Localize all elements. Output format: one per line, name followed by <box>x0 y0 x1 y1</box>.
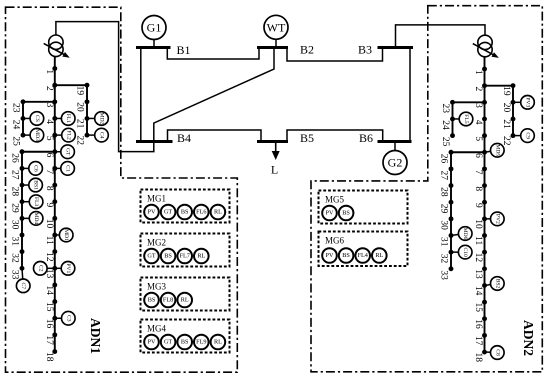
svg-text:29: 29 <box>439 204 449 214</box>
svg-text:8: 8 <box>473 186 483 191</box>
svg-text:MG6: MG6 <box>325 236 345 246</box>
svg-text:2: 2 <box>44 86 54 91</box>
unit GT at ADN1 node 6 <box>61 145 75 159</box>
svg-text:11: 11 <box>44 236 54 245</box>
svg-text:RL: RL <box>375 252 383 259</box>
svg-text:C2: C2 <box>37 265 43 272</box>
line B3-B6 <box>409 48 411 142</box>
ADN1 node 22 <box>85 133 90 138</box>
svg-text:B2: B2 <box>300 43 314 57</box>
ADN1 node 26 <box>20 149 25 154</box>
ADN2 node 8 <box>482 183 487 188</box>
unit PV3 at ADN2 node 20 <box>521 96 535 110</box>
OLTC transformer T1 (ADN1) <box>44 35 70 58</box>
ADN2 main feeder wire 1-18 <box>484 57 486 352</box>
svg-text:33: 33 <box>10 270 20 280</box>
svg-text:18: 18 <box>44 352 54 362</box>
unit PV1 at ADN1 node 13 <box>61 262 75 276</box>
svg-text:18: 18 <box>473 353 483 363</box>
ADN1 node 3 <box>52 99 57 104</box>
unit C3 at ADN1 node 16 <box>62 311 76 325</box>
unit PV in MG6 <box>322 248 337 263</box>
ADN1 node 13 <box>52 266 57 271</box>
svg-text:FL5: FL5 <box>463 114 469 124</box>
svg-text:B1: B1 <box>176 43 190 57</box>
ADN2 node 26 <box>449 150 454 155</box>
unit BS1 at ADN1 node 28 <box>29 178 43 192</box>
svg-text:B4: B4 <box>177 131 191 145</box>
svg-text:30: 30 <box>439 220 449 230</box>
svg-text:FL4: FL4 <box>358 252 368 259</box>
ADN2 branch wire 2-19-22 <box>485 86 514 136</box>
svg-text:4: 4 <box>473 120 483 125</box>
svg-text:20: 20 <box>74 102 84 112</box>
svg-text:5: 5 <box>473 136 483 141</box>
svg-text:FL9: FL9 <box>196 339 206 346</box>
wind turbine WT <box>264 15 288 39</box>
svg-text:27: 27 <box>439 170 449 180</box>
svg-text:16: 16 <box>473 319 483 329</box>
ADN1 node 33 <box>20 266 25 271</box>
svg-text:FL1: FL1 <box>65 114 71 124</box>
ADN1 node 17 <box>52 332 57 337</box>
ADN1 node 28 <box>20 183 25 188</box>
bus bar B6 <box>378 140 412 143</box>
ADN2 node 33 <box>449 266 454 271</box>
unit FL1 at ADN1 node 4 <box>61 112 75 126</box>
ADN2 node 29 <box>449 200 454 205</box>
unit C9 at ADN2 node 22 <box>521 129 535 143</box>
ADN2 node 2 <box>482 83 487 88</box>
svg-text:CS: CS <box>34 115 40 122</box>
svg-text:7: 7 <box>473 170 483 175</box>
unit GT in MG4 <box>161 335 176 350</box>
svg-text:WT: WT <box>267 20 286 34</box>
svg-text:ADN1: ADN1 <box>88 318 103 354</box>
svg-text:ADN2: ADN2 <box>521 320 536 356</box>
svg-text:RL: RL <box>197 253 205 260</box>
unit C4 at ADN1 node 22 <box>95 128 109 142</box>
unit FL2 at ADN1 node 5 <box>62 128 76 142</box>
svg-text:MD3: MD3 <box>34 129 40 141</box>
svg-text:PV: PV <box>326 210 334 217</box>
svg-text:15: 15 <box>473 303 483 313</box>
svg-text:GT: GT <box>164 339 172 346</box>
ADN2 node 19 <box>511 83 516 88</box>
svg-text:B6: B6 <box>359 131 373 145</box>
unit RL in MG3 <box>177 293 192 308</box>
svg-text:C7: C7 <box>20 283 26 290</box>
svg-text:29: 29 <box>10 203 20 213</box>
unit MD2 at ADN1 node 21 <box>95 112 109 126</box>
bus bar B2 <box>257 46 288 49</box>
ADN2 node 24 <box>450 117 455 122</box>
ADN1 + MG1-MG4 L-shaped boundary (dash-dot) <box>6 7 238 372</box>
OLTC transformer T2 (ADN2) <box>473 35 499 58</box>
ADN2 branch wire 3-23-25 <box>453 102 485 135</box>
svg-text:BS1: BS1 <box>33 180 39 190</box>
svg-text:8: 8 <box>44 186 54 191</box>
ADN2 node 14 <box>482 283 487 288</box>
ADN1 node 25 <box>21 133 26 138</box>
svg-text:27: 27 <box>10 170 20 180</box>
unit C6 at ADN1 node 27 <box>29 162 43 176</box>
ADN2 node 1 <box>482 67 487 72</box>
svg-text:21: 21 <box>501 119 511 129</box>
ADN1 node 8 <box>52 183 57 188</box>
unit FL3 at ADN1 node 29 <box>29 195 43 209</box>
svg-text:MG3: MG3 <box>147 282 167 292</box>
line B1-B4 <box>140 48 142 142</box>
ADN1 node 31 <box>20 233 25 238</box>
generator G2 <box>383 151 407 175</box>
ADN2 node 3 <box>482 100 487 105</box>
ADN1 node 18 <box>52 349 57 354</box>
svg-text:RL: RL <box>214 339 222 346</box>
ADN1 node 16 <box>52 316 57 321</box>
microgrid box MG2 <box>141 234 230 267</box>
unit CS at ADN1 node 24 <box>30 112 44 126</box>
unit MD5 at ADN2 node 6 <box>491 143 505 157</box>
svg-text:26: 26 <box>10 153 20 163</box>
svg-text:25: 25 <box>10 136 20 146</box>
microgrid box MG3 <box>141 278 230 311</box>
svg-text:21: 21 <box>74 119 84 129</box>
unit C10 at ADN2 node 32 <box>458 245 472 259</box>
svg-text:12: 12 <box>473 253 483 263</box>
unit PV2 at ADN2 node 10 <box>491 212 505 226</box>
svg-text:BS: BS <box>181 209 189 216</box>
ADN2 + MG5/MG6 L-shaped boundary (dash-dot) <box>311 6 542 372</box>
ADN1 node 10 <box>52 216 57 221</box>
microgrid box MG6 <box>319 232 408 267</box>
svg-text:G1: G1 <box>147 21 162 35</box>
svg-text:C6: C6 <box>33 165 39 172</box>
line B4-B5 <box>168 130 262 142</box>
unit RL in MG1 <box>211 205 226 220</box>
svg-text:PV2: PV2 <box>494 214 500 224</box>
ADN2 node 20 <box>511 100 516 105</box>
svg-text:FL2: FL2 <box>66 130 72 140</box>
unit BS in MG1 <box>177 205 192 220</box>
unit FL4 in MG6 <box>355 248 370 263</box>
svg-text:C10: C10 <box>462 247 468 257</box>
ADN2 node 16 <box>482 316 487 321</box>
line B2-B3 <box>287 48 383 62</box>
svg-text:19: 19 <box>74 86 84 96</box>
microgrid box MG1 <box>141 190 230 223</box>
ADN1 node 7 <box>52 166 57 171</box>
svg-text:MD6: MD6 <box>462 228 468 240</box>
ADN2 node 17 <box>482 333 487 338</box>
svg-text:9: 9 <box>473 203 483 208</box>
unit BS2 at ADN2 node 14 <box>491 277 505 291</box>
ADN2 node 15 <box>482 300 487 305</box>
svg-text:MG1: MG1 <box>147 194 166 204</box>
svg-text:22: 22 <box>501 136 511 146</box>
svg-text:33: 33 <box>439 270 449 280</box>
unit PV in MG4 <box>144 335 159 350</box>
svg-text:BS: BS <box>342 210 350 217</box>
svg-text:11: 11 <box>473 236 483 245</box>
ADN1 node 20 <box>85 99 90 104</box>
ADN1 node 32 <box>20 249 25 254</box>
svg-text:23: 23 <box>440 104 450 114</box>
svg-text:25: 25 <box>440 137 450 147</box>
ADN2 node 13 <box>482 266 487 271</box>
svg-text:C8: C8 <box>494 349 500 356</box>
ADN2 node 21 <box>511 117 516 122</box>
unit FL6 in MG1 <box>194 205 209 220</box>
microgrid box MG4 <box>141 320 230 353</box>
svg-text:31: 31 <box>439 237 449 247</box>
svg-text:32: 32 <box>439 254 449 264</box>
ADN2 node 31 <box>449 233 454 238</box>
ADN1 branch wire 2-19-22 <box>55 85 87 135</box>
ADN1 node 29 <box>20 199 25 204</box>
ADN2 node 27 <box>449 166 454 171</box>
svg-text:C1: C1 <box>65 165 71 172</box>
ADN1 node 6 <box>52 149 57 154</box>
svg-text:C3: C3 <box>65 315 71 322</box>
ADN2 node 23 <box>450 100 455 105</box>
svg-text:24: 24 <box>10 120 20 130</box>
svg-text:1: 1 <box>44 69 54 74</box>
svg-text:6: 6 <box>44 153 54 158</box>
ADN2 node 28 <box>449 183 454 188</box>
svg-text:20: 20 <box>501 103 511 113</box>
ADN2 node 12 <box>482 250 487 255</box>
svg-text:12: 12 <box>44 252 54 262</box>
wire WT to B2 <box>275 39 277 47</box>
svg-text:MG4: MG4 <box>147 324 167 334</box>
ADN2 node 25 <box>450 133 455 138</box>
ADN2 node 30 <box>449 216 454 221</box>
unit RL in MG4 <box>211 335 226 350</box>
svg-text:B5: B5 <box>300 131 314 145</box>
ADN2 node 11 <box>482 233 487 238</box>
ADN1 node 1 <box>52 66 57 71</box>
unit C1 at ADN1 node 7 <box>61 162 75 176</box>
ADN1 node 24 <box>21 116 26 121</box>
ADN2 node 18 <box>482 350 487 355</box>
svg-text:19: 19 <box>501 86 511 96</box>
svg-text:10: 10 <box>44 219 54 229</box>
ADN2 node 4 <box>482 117 487 122</box>
svg-text:MD4: MD4 <box>33 212 39 224</box>
unit BS in MG5 <box>339 206 354 221</box>
svg-text:23: 23 <box>10 103 20 113</box>
ADN1 node 14 <box>52 283 57 288</box>
svg-text:14: 14 <box>44 285 54 295</box>
ADN2 node 5 <box>482 133 487 138</box>
ADN1 node 4 <box>52 116 57 121</box>
svg-text:17: 17 <box>473 336 483 346</box>
unit GT in MG1 <box>161 205 176 220</box>
svg-text:BS: BS <box>164 253 172 260</box>
ADN1 node 27 <box>20 166 25 171</box>
unit RL in MG2 <box>194 249 209 264</box>
svg-text:3: 3 <box>44 103 54 108</box>
unit BS in MG2 <box>161 249 176 264</box>
ADN1 node 11 <box>52 233 57 238</box>
unit PV in MG5 <box>322 206 337 221</box>
line WT/B2 diagonal to B4 <box>154 48 274 142</box>
unit FL7 in MG2 <box>177 249 192 264</box>
ADN2 node 9 <box>482 200 487 205</box>
svg-text:MD2: MD2 <box>99 113 105 125</box>
svg-text:G2: G2 <box>388 156 403 170</box>
ADN2 node 10 <box>482 216 487 221</box>
unit FL5 at ADN2 node 24 <box>459 112 473 126</box>
svg-text:24: 24 <box>440 120 450 130</box>
svg-text:30: 30 <box>10 220 20 230</box>
svg-text:PV3: PV3 <box>525 97 531 107</box>
svg-text:FL3: FL3 <box>33 197 39 207</box>
ADN1 node 2 <box>52 83 57 88</box>
svg-text:MG2: MG2 <box>147 238 166 248</box>
svg-text:9: 9 <box>44 203 54 208</box>
svg-text:2: 2 <box>473 86 483 91</box>
unit FL8 in MG3 <box>161 293 176 308</box>
svg-text:32: 32 <box>10 253 20 263</box>
svg-text:RL: RL <box>181 297 189 304</box>
unit C8 at ADN2 node 18 <box>491 346 505 360</box>
svg-text:26: 26 <box>439 154 449 164</box>
svg-text:FL6: FL6 <box>196 209 206 216</box>
wire B6 to G2 <box>394 142 396 151</box>
svg-text:6: 6 <box>473 153 483 158</box>
microgrid box MG5 <box>319 191 408 224</box>
svg-text:GT: GT <box>164 209 172 216</box>
svg-text:28: 28 <box>439 187 449 197</box>
svg-text:4: 4 <box>44 119 54 124</box>
line B1-B2 <box>167 48 259 60</box>
ADN1 node 23 <box>21 99 26 104</box>
svg-text:MD1: MD1 <box>63 229 69 241</box>
ADN1 main feeder wire 1-18 <box>54 57 56 352</box>
svg-text:FL8: FL8 <box>163 297 173 304</box>
unit PV in MG1 <box>144 205 159 220</box>
svg-text:31: 31 <box>10 237 20 247</box>
bus bar B3 <box>378 46 414 49</box>
unit C2 at ADN1 node 13 <box>34 262 48 276</box>
svg-text:GT: GT <box>147 253 155 260</box>
svg-text:RL: RL <box>214 209 222 216</box>
svg-text:17: 17 <box>44 335 54 345</box>
wire ADN1 transformer to B4 <box>56 22 154 152</box>
unit MD3 at ADN1 node 25 <box>30 128 44 142</box>
wire G1 to B1 <box>153 40 155 48</box>
ADN1 node 5 <box>52 133 57 138</box>
svg-text:FL7: FL7 <box>180 253 190 260</box>
svg-text:16: 16 <box>44 319 54 329</box>
ADN2 node 7 <box>482 166 487 171</box>
svg-text:GT: GT <box>65 148 71 156</box>
svg-text:C4: C4 <box>99 132 105 139</box>
ADN2 node 22 <box>511 133 516 138</box>
unit C7 below ADN1 node 33 <box>16 279 30 293</box>
ADN1 node 9 <box>52 199 57 204</box>
svg-text:L: L <box>271 163 278 177</box>
svg-text:28: 28 <box>10 187 20 197</box>
unit BS in MG3 <box>144 293 159 308</box>
ADN2 node 6 <box>482 150 487 155</box>
svg-text:C9: C9 <box>525 132 531 139</box>
unit BS in MG4 <box>177 335 192 350</box>
ADN1 node 15 <box>52 299 57 304</box>
unit FL9 in MG4 <box>194 335 209 350</box>
bus bar B4 <box>136 140 173 143</box>
ADN1 node 12 <box>52 249 57 254</box>
svg-text:7: 7 <box>44 169 54 174</box>
svg-text:BS: BS <box>148 297 156 304</box>
svg-text:14: 14 <box>473 286 483 296</box>
unit RL in MG6 <box>372 248 387 263</box>
unit MD1 at ADN1 node 11 <box>59 228 73 242</box>
svg-text:MD5: MD5 <box>494 144 500 156</box>
unit MD4 at ADN1 node 30 <box>29 212 43 226</box>
bus bar B1 <box>136 46 171 49</box>
bus bar B5 <box>257 140 288 143</box>
ADN2 branch wire 6-26-33 <box>451 152 485 269</box>
svg-text:PV: PV <box>148 339 156 346</box>
generator G1 <box>142 16 166 40</box>
svg-text:1: 1 <box>473 70 483 75</box>
svg-text:BS: BS <box>181 339 189 346</box>
svg-text:10: 10 <box>473 219 483 229</box>
svg-text:PV: PV <box>326 252 334 259</box>
wire B3 to ADN2 transformer <box>396 25 486 48</box>
unit MD6 at ADN2 node 31 <box>458 227 472 241</box>
ADN1 node 19 <box>85 83 90 88</box>
svg-text:B3: B3 <box>358 43 372 57</box>
ADN1 branch wire 6-26-33 <box>22 152 55 269</box>
line B5-B6 <box>287 130 383 142</box>
svg-text:13: 13 <box>473 269 483 279</box>
ADN1 node 21 <box>85 116 90 121</box>
ADN1 branch wire 3-23-25 <box>23 102 55 135</box>
svg-text:PV1: PV1 <box>65 263 71 273</box>
ADN2 node 32 <box>449 250 454 255</box>
unit BS in MG6 <box>339 248 354 263</box>
load L arrow <box>272 142 280 161</box>
svg-text:5: 5 <box>44 136 54 141</box>
svg-text:3: 3 <box>473 103 483 108</box>
svg-text:PV: PV <box>148 209 156 216</box>
svg-text:15: 15 <box>44 302 54 312</box>
unit GT in MG2 <box>144 249 159 264</box>
svg-text:MG5: MG5 <box>325 195 345 205</box>
svg-text:BS: BS <box>342 252 350 259</box>
svg-text:BS2: BS2 <box>494 279 500 289</box>
ADN1 node 30 <box>20 216 25 221</box>
